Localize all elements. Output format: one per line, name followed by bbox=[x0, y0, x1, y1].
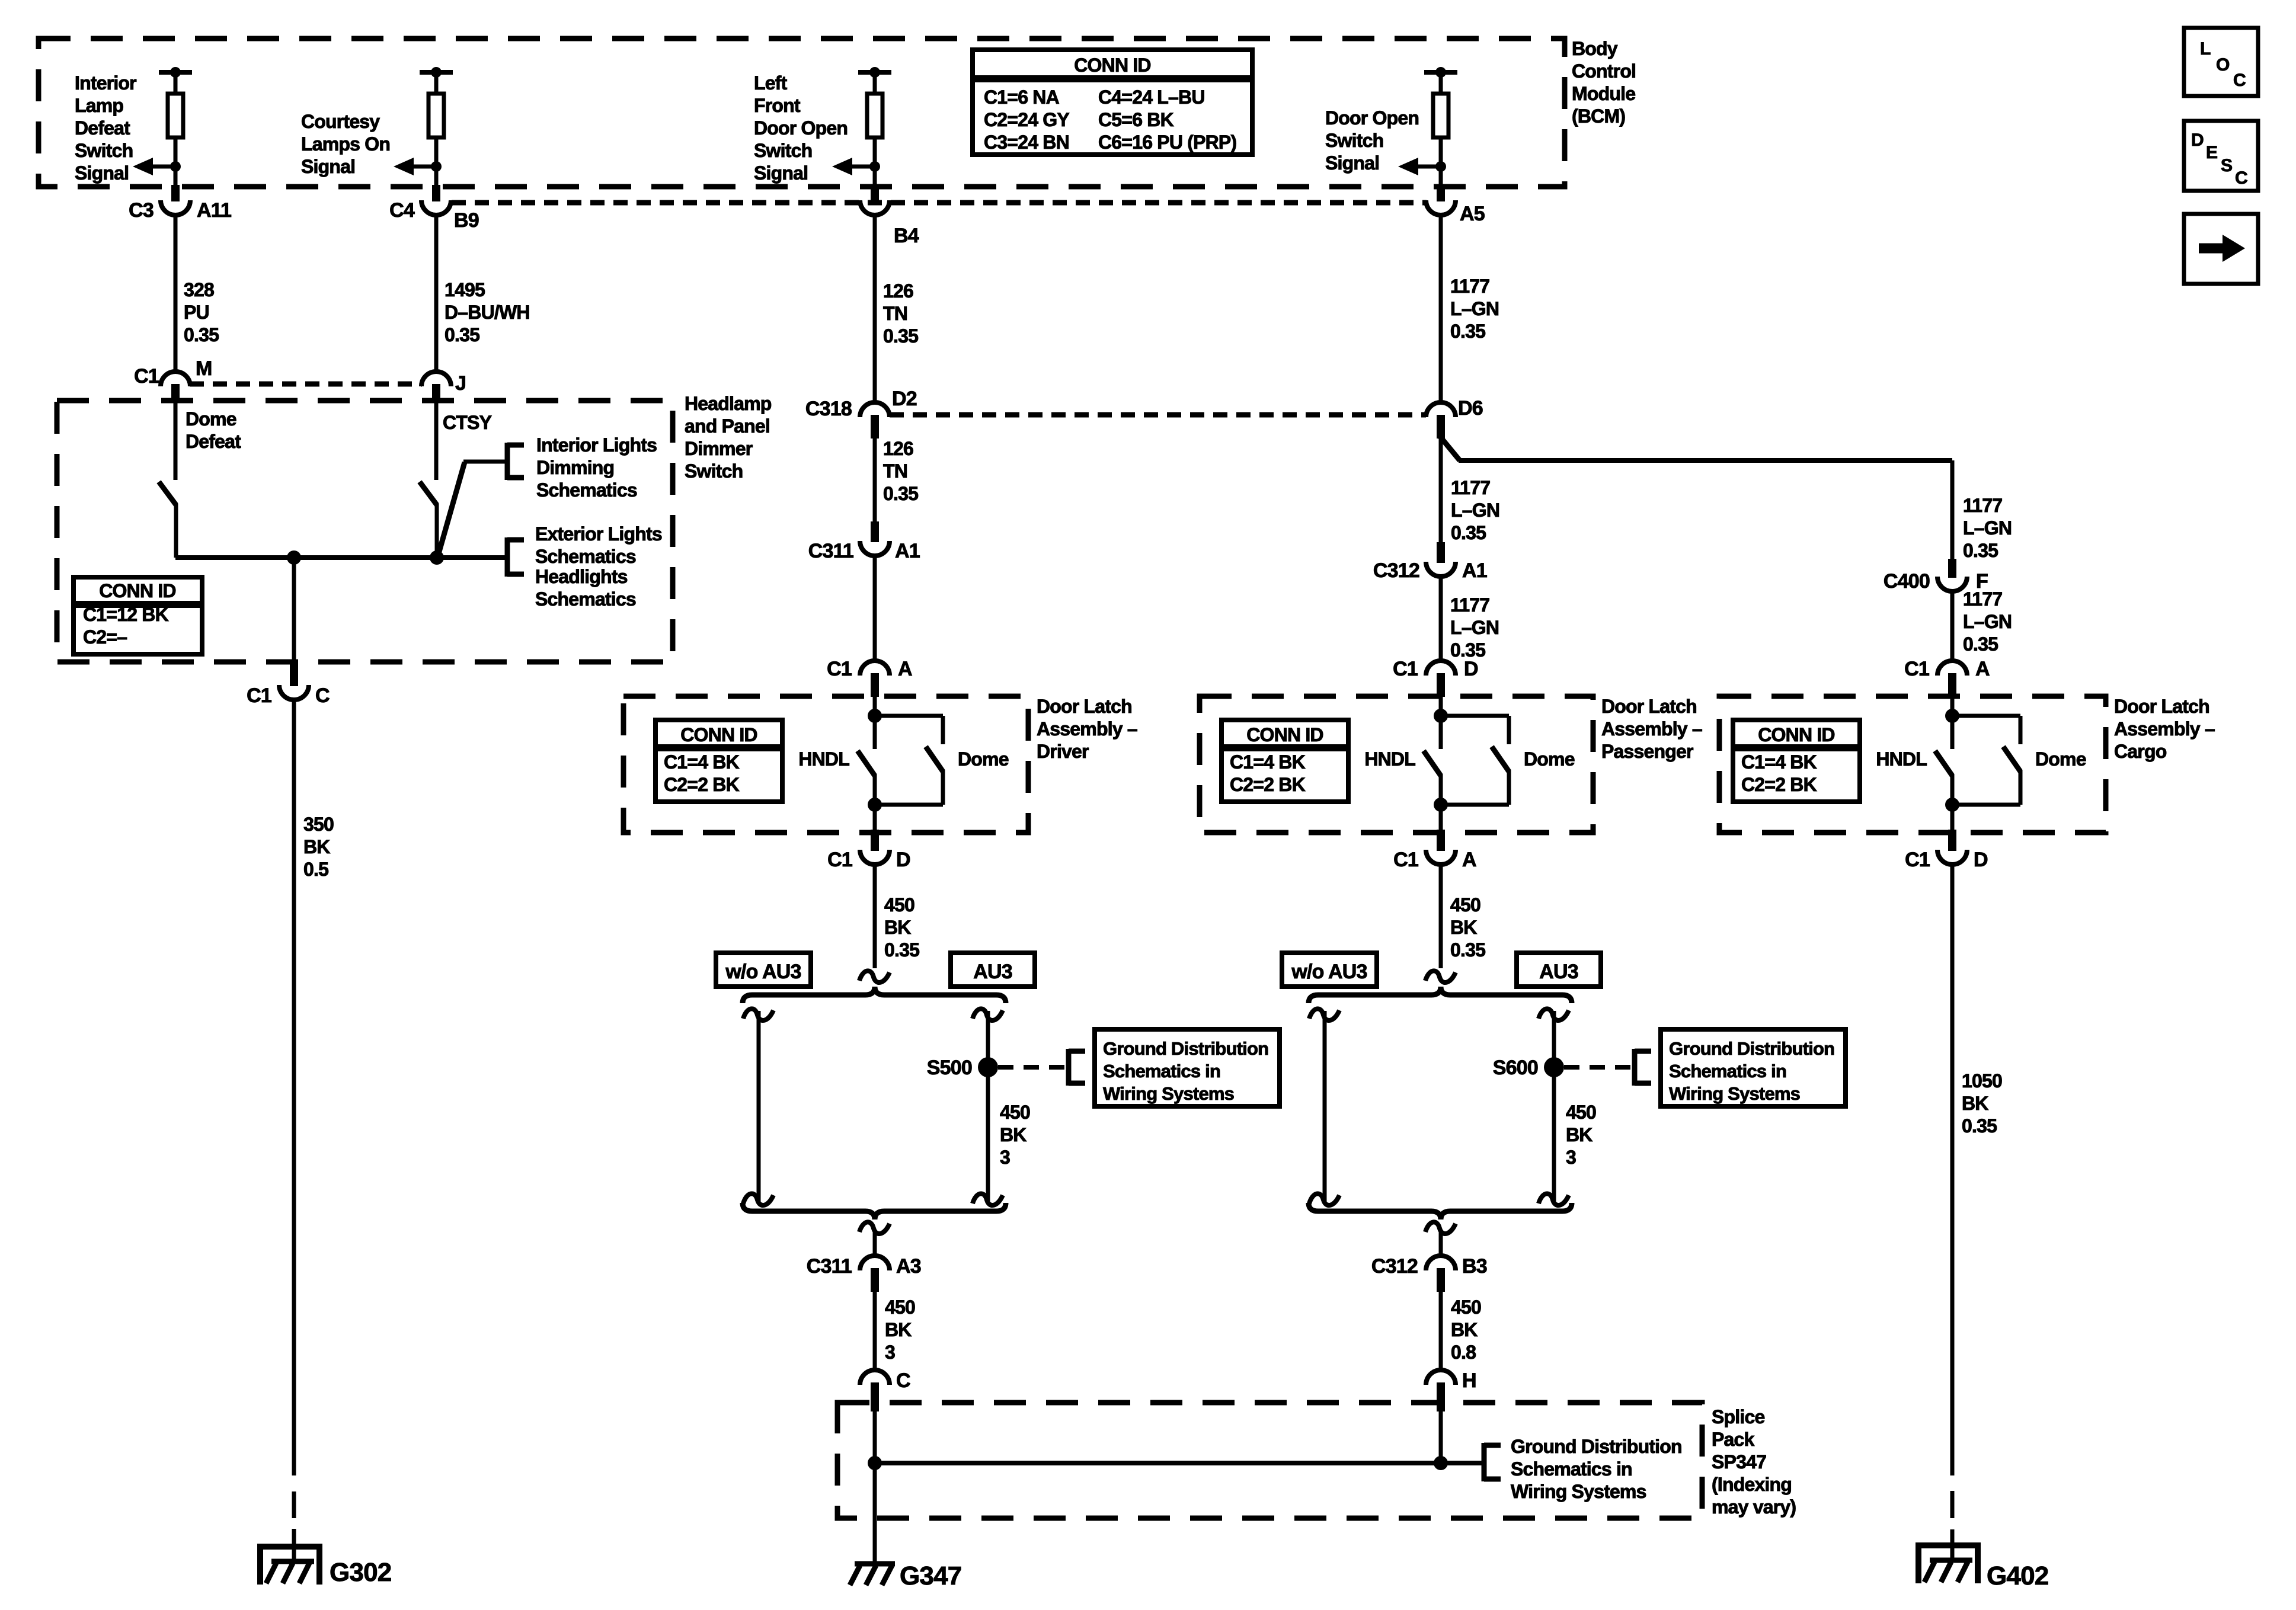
svg-text:0.35: 0.35 bbox=[1451, 522, 1486, 543]
connector C1 pin D passenger latch bbox=[1393, 658, 1478, 697]
svg-text:Switch: Switch bbox=[1325, 130, 1383, 151]
label Dome Defeat bbox=[186, 408, 241, 452]
switch dome defeat bbox=[159, 482, 176, 558]
svg-text:D6: D6 bbox=[1458, 397, 1483, 420]
svg-text:Door Latch: Door Latch bbox=[1037, 696, 1132, 717]
dashed reference line bbox=[998, 1065, 1068, 1070]
wire bbox=[434, 401, 439, 480]
svg-text:A5: A5 bbox=[1460, 203, 1485, 225]
ground G402 bbox=[1916, 1545, 1981, 1583]
Door Latch Assembly box (Cargo) bbox=[1719, 696, 2106, 833]
svg-text:BK: BK bbox=[1000, 1124, 1027, 1145]
wire bbox=[1950, 1529, 1955, 1562]
signal arrow door open switch bbox=[1398, 158, 1446, 175]
svg-text:C1: C1 bbox=[1393, 658, 1418, 680]
w/o AU3 option box bbox=[1282, 953, 1377, 987]
wire bbox=[1439, 1411, 1443, 1463]
svg-text:A11: A11 bbox=[197, 199, 231, 222]
switch Dome bbox=[2003, 716, 2020, 805]
junction dot bbox=[1434, 1456, 1448, 1470]
wire dash bbox=[1950, 1491, 1955, 1518]
svg-text:Lamp: Lamp bbox=[75, 95, 123, 116]
svg-text:B4: B4 bbox=[894, 225, 919, 247]
svg-text:TN: TN bbox=[883, 303, 907, 324]
svg-text:C: C bbox=[2233, 71, 2246, 90]
splice S600 bbox=[1493, 1057, 1564, 1079]
label Courtesy Lamps On Signal bbox=[301, 111, 390, 177]
svg-text:BK: BK bbox=[1962, 1093, 1988, 1114]
svg-text:BK: BK bbox=[884, 917, 911, 938]
bus wire bbox=[175, 555, 507, 560]
svg-text:3: 3 bbox=[885, 1342, 895, 1363]
wire w/o AU3 branch bbox=[1323, 1011, 1327, 1203]
wire 450 BK bbox=[873, 866, 877, 968]
svg-text:0.35: 0.35 bbox=[884, 939, 919, 961]
svg-text:Defeat: Defeat bbox=[186, 431, 241, 452]
svg-text:C6=16 PU (PRP): C6=16 PU (PRP) bbox=[1098, 132, 1236, 153]
wire break symbol bbox=[1539, 1193, 1569, 1205]
svg-text:w/o AU3: w/o AU3 bbox=[725, 961, 801, 983]
svg-text:Passenger: Passenger bbox=[1601, 741, 1693, 762]
svg-text:450: 450 bbox=[1566, 1102, 1596, 1123]
svg-text:Signal: Signal bbox=[75, 162, 129, 184]
svg-text:0.5: 0.5 bbox=[303, 859, 328, 880]
svg-text:0.8: 0.8 bbox=[1451, 1342, 1476, 1363]
label G302 bbox=[330, 1558, 391, 1587]
DESC legend box bbox=[2184, 121, 2258, 191]
label Exterior Lights Schematics bbox=[535, 523, 662, 567]
svg-text:C1=6 NA: C1=6 NA bbox=[984, 87, 1060, 108]
connector pin A5 bbox=[1426, 185, 1485, 225]
wire bbox=[873, 1411, 877, 1564]
option brace top bbox=[1309, 987, 1572, 1003]
svg-text:Left: Left bbox=[754, 72, 788, 94]
wire AU3 branch bbox=[986, 1011, 990, 1203]
signal arrow left front door open bbox=[832, 158, 880, 175]
label 1495 D-BU/WH 0.35 bbox=[445, 279, 530, 345]
svg-text:AU3: AU3 bbox=[973, 961, 1012, 983]
svg-text:D: D bbox=[896, 849, 910, 871]
svg-text:Schematics: Schematics bbox=[536, 479, 637, 501]
svg-text:L–GN: L–GN bbox=[1963, 611, 2012, 632]
junction dot bbox=[868, 1456, 882, 1470]
svg-text:Switch: Switch bbox=[685, 460, 743, 482]
svg-text:(Indexing: (Indexing bbox=[1712, 1474, 1792, 1495]
junction dot bbox=[287, 550, 301, 565]
svg-text:C318: C318 bbox=[805, 398, 852, 420]
svg-text:Headlamp: Headlamp bbox=[685, 393, 772, 414]
svg-text:A: A bbox=[1975, 658, 1990, 680]
svg-text:C312: C312 bbox=[1373, 559, 1419, 582]
connector C318 pin D2 bbox=[805, 388, 917, 438]
svg-text:Door Open: Door Open bbox=[1325, 107, 1419, 129]
switch Dome bbox=[926, 716, 943, 805]
dotted inline line row C bbox=[890, 412, 1426, 418]
connector C312 pin A1 bbox=[1373, 542, 1487, 582]
wire bbox=[873, 697, 877, 749]
switch HNDL bbox=[858, 751, 875, 805]
wire 1177 L-GN upper bbox=[1439, 217, 1443, 401]
wire bbox=[1439, 167, 1443, 187]
svg-text:C1: C1 bbox=[1905, 849, 1930, 871]
svg-text:Assembly –: Assembly – bbox=[1601, 718, 1702, 740]
bracket to ground distribution bbox=[1635, 1049, 1651, 1086]
svg-text:D2: D2 bbox=[892, 388, 917, 410]
resistor R3 left front door bbox=[858, 67, 891, 167]
signal arrow courtesy lamps on bbox=[394, 158, 442, 175]
ground G302 bbox=[257, 1547, 322, 1585]
connector pin J bbox=[421, 372, 466, 401]
label Headlamp and Panel Dimmer Switch bbox=[685, 393, 772, 482]
wire break symbol bbox=[1425, 1222, 1456, 1234]
svg-text:Courtesy: Courtesy bbox=[301, 111, 380, 132]
svg-text:Dome: Dome bbox=[186, 408, 236, 430]
connector C4 pin B9 bbox=[389, 185, 479, 232]
wire break symbol bbox=[1425, 971, 1456, 982]
dimmer switch CONN ID table bbox=[73, 577, 202, 654]
svg-text:Module: Module bbox=[1572, 83, 1635, 104]
switch CTSY bbox=[420, 482, 437, 558]
wire bbox=[873, 1233, 877, 1254]
svg-text:Pack: Pack bbox=[1712, 1429, 1755, 1450]
dotted inline harness line row A bbox=[452, 200, 1427, 206]
label 1177 L-GN 0.35 cargo upper bbox=[1963, 495, 2012, 561]
svg-text:Ground Distribution: Ground Distribution bbox=[1669, 1038, 1834, 1059]
svg-text:C2=2 BK: C2=2 BK bbox=[1741, 774, 1817, 795]
svg-text:1050: 1050 bbox=[1962, 1070, 2002, 1092]
label Splice Pack SP347 bbox=[1712, 1406, 1796, 1518]
svg-text:CONN ID: CONN ID bbox=[680, 724, 757, 745]
svg-text:C311: C311 bbox=[808, 540, 853, 562]
label Dome bbox=[2035, 748, 2086, 770]
svg-text:E: E bbox=[2206, 143, 2217, 162]
svg-text:Dome: Dome bbox=[2035, 748, 2086, 770]
wire break symbol bbox=[1309, 1009, 1339, 1020]
svg-text:Door Latch: Door Latch bbox=[2114, 696, 2209, 717]
svg-text:Interior Lights: Interior Lights bbox=[536, 434, 657, 456]
svg-text:L: L bbox=[2200, 39, 2211, 59]
wire break symbol bbox=[973, 1009, 1003, 1020]
svg-text:1177: 1177 bbox=[1963, 588, 2002, 610]
svg-text:Signal: Signal bbox=[1325, 152, 1379, 174]
svg-text:C4=24 L–BU: C4=24 L–BU bbox=[1098, 87, 1205, 108]
svg-text:CONN ID: CONN ID bbox=[1246, 724, 1323, 745]
svg-text:and Panel: and Panel bbox=[685, 415, 770, 437]
wire break symbol bbox=[743, 1193, 773, 1205]
svg-text:Control: Control bbox=[1572, 60, 1636, 82]
svg-text:Headlights: Headlights bbox=[535, 566, 628, 587]
label Interior Lights Dimming Schematics bbox=[536, 434, 657, 501]
svg-text:BK: BK bbox=[1450, 917, 1477, 938]
junction dot bbox=[1434, 798, 1448, 812]
svg-text:A: A bbox=[1462, 849, 1476, 871]
svg-text:SP347: SP347 bbox=[1712, 1451, 1766, 1473]
wire 450 BK lower bbox=[873, 1292, 877, 1368]
svg-text:M: M bbox=[196, 357, 212, 380]
wire w/o AU3 branch bbox=[757, 1011, 761, 1203]
Ground Distribution reference box bbox=[1661, 1029, 1846, 1106]
svg-text:328: 328 bbox=[184, 279, 214, 300]
BCM CONN ID table bbox=[973, 50, 1252, 155]
svg-text:A3: A3 bbox=[896, 1255, 921, 1278]
label 1177 L-GN 0.35 cargo lower bbox=[1963, 588, 2012, 655]
Door Latch Assembly box (Driver) bbox=[623, 696, 1028, 833]
label 450 BK 0.35 bbox=[1450, 894, 1485, 961]
label G402 bbox=[1987, 1561, 2048, 1590]
svg-text:BK: BK bbox=[885, 1319, 912, 1340]
svg-text:O: O bbox=[2216, 55, 2230, 75]
wire break symbol bbox=[1309, 1193, 1339, 1205]
connector pin B4 bbox=[860, 185, 919, 247]
svg-text:Defeat: Defeat bbox=[75, 117, 130, 139]
Body Control Module (BCM) dashed box bbox=[39, 39, 1565, 187]
svg-text:Schematics in: Schematics in bbox=[1669, 1061, 1786, 1081]
wire bbox=[1439, 1233, 1443, 1254]
label CTSY bbox=[443, 412, 492, 433]
junction dot bbox=[1945, 798, 1959, 812]
wire 1495 D-BU/WH bbox=[434, 217, 439, 370]
label 328 PU 0.35 bbox=[184, 279, 219, 345]
junction dot bbox=[1945, 709, 1959, 723]
svg-text:HNDL: HNDL bbox=[798, 748, 849, 770]
connector C400 pin F bbox=[1884, 559, 1988, 593]
svg-text:C400: C400 bbox=[1884, 570, 1930, 593]
svg-text:CONN ID: CONN ID bbox=[1074, 55, 1151, 76]
svg-text:Front: Front bbox=[754, 95, 801, 116]
label Ground Distribution Schematics in Wiring Systems bbox=[1511, 1436, 1682, 1502]
svg-text:Exterior Lights: Exterior Lights bbox=[535, 523, 662, 545]
svg-text:CONN ID: CONN ID bbox=[99, 580, 176, 601]
connector pin H bbox=[1426, 1369, 1476, 1411]
wire bbox=[1950, 593, 1955, 659]
svg-text:126: 126 bbox=[883, 438, 913, 459]
svg-text:Interior: Interior bbox=[75, 72, 136, 94]
svg-text:L–GN: L–GN bbox=[1451, 500, 1499, 521]
svg-text:CONN ID: CONN ID bbox=[1758, 724, 1835, 745]
svg-text:1177: 1177 bbox=[1451, 477, 1490, 498]
connector C311 pin A3 bbox=[807, 1255, 921, 1292]
svg-text:H: H bbox=[1462, 1369, 1476, 1392]
svg-text:C2=24 GY: C2=24 GY bbox=[984, 109, 1069, 130]
wire bbox=[1441, 803, 1509, 807]
bracket to exterior lights / headlights schematics bbox=[507, 537, 524, 577]
svg-text:3: 3 bbox=[1000, 1147, 1010, 1168]
label Headlights Schematics bbox=[535, 566, 636, 610]
dashed reference line bbox=[1564, 1065, 1634, 1070]
branch diagonal to cargo bbox=[1440, 437, 1460, 460]
label 450 BK 0.35 bbox=[884, 894, 919, 961]
label 126 TN 0.35 upper bbox=[883, 280, 918, 347]
latch CONN ID table bbox=[1221, 720, 1348, 802]
wire bbox=[1439, 697, 1443, 749]
label Dome bbox=[1524, 748, 1575, 770]
label Dome bbox=[958, 748, 1009, 770]
svg-text:450: 450 bbox=[885, 1297, 915, 1318]
svg-text:A: A bbox=[898, 658, 912, 680]
label 450 BK 3 bbox=[885, 1297, 915, 1363]
wire to dome switch bbox=[1952, 714, 2020, 718]
connector C1 pin D bbox=[1905, 830, 1988, 871]
svg-text:0.35: 0.35 bbox=[1962, 1115, 1997, 1137]
junction dot bbox=[868, 709, 882, 723]
svg-text:C312: C312 bbox=[1371, 1255, 1418, 1278]
svg-text:B3: B3 bbox=[1462, 1255, 1487, 1278]
svg-text:C3: C3 bbox=[129, 199, 154, 222]
wire bbox=[174, 167, 178, 187]
wire bbox=[873, 805, 877, 830]
svg-text:C: C bbox=[896, 1369, 910, 1392]
connector C1 pin A driver latch bbox=[827, 658, 912, 697]
svg-text:L–GN: L–GN bbox=[1450, 298, 1499, 319]
svg-text:Dome: Dome bbox=[1524, 748, 1575, 770]
svg-text:G347: G347 bbox=[900, 1561, 961, 1590]
svg-text:Door Open: Door Open bbox=[754, 117, 848, 139]
Headlamp and Panel Dimmer Switch dashed box bbox=[57, 401, 673, 662]
connector C1 pin M bbox=[134, 357, 212, 401]
svg-text:Switch: Switch bbox=[75, 140, 133, 161]
signal arrow interior lamp defeat bbox=[133, 158, 181, 175]
svg-text:C: C bbox=[2235, 168, 2247, 188]
svg-text:1495: 1495 bbox=[445, 279, 485, 300]
svg-text:1177: 1177 bbox=[1963, 495, 2002, 516]
label 450 BK 0.8 bbox=[1451, 1297, 1481, 1363]
svg-text:C5=6 BK: C5=6 BK bbox=[1098, 109, 1174, 130]
svg-text:3: 3 bbox=[1566, 1147, 1576, 1168]
bracket to interior lights schematics bbox=[507, 443, 524, 480]
svg-text:C4: C4 bbox=[389, 199, 415, 222]
connector C1 pin A cargo latch bbox=[1904, 658, 1990, 697]
option brace top bbox=[743, 987, 1006, 1003]
wire bbox=[875, 803, 943, 807]
svg-text:S500: S500 bbox=[927, 1057, 972, 1079]
wire 328 PU bbox=[174, 217, 178, 370]
connector C1 pin C bbox=[247, 662, 330, 707]
wire break symbol bbox=[859, 971, 890, 982]
svg-text:C1: C1 bbox=[827, 658, 852, 680]
svg-text:Wiring Systems: Wiring Systems bbox=[1511, 1481, 1646, 1502]
svg-text:D: D bbox=[1974, 849, 1988, 871]
svg-text:126: 126 bbox=[883, 280, 913, 302]
svg-text:450: 450 bbox=[1000, 1102, 1030, 1123]
wire 450 BK lower bbox=[1439, 1292, 1443, 1368]
option brace bottom bbox=[1309, 1203, 1572, 1219]
svg-text:Switch: Switch bbox=[754, 140, 812, 161]
svg-text:L–GN: L–GN bbox=[1450, 617, 1499, 638]
wire break symbol bbox=[973, 1193, 1003, 1205]
junction dot bbox=[868, 798, 882, 812]
svg-text:0.35: 0.35 bbox=[1963, 540, 1998, 561]
option brace bottom bbox=[743, 1203, 1006, 1219]
svg-text:BK: BK bbox=[1566, 1124, 1593, 1145]
svg-text:TN: TN bbox=[883, 460, 907, 482]
wire AU3 branch bbox=[1552, 1011, 1556, 1203]
svg-text:J: J bbox=[455, 372, 466, 395]
connector C311 pin A1 bbox=[808, 521, 920, 562]
svg-text:C1=4 BK: C1=4 BK bbox=[1230, 751, 1306, 773]
connector C3 pin A11 bbox=[129, 185, 231, 222]
connector pin C bbox=[860, 1369, 910, 1411]
svg-text:HNDL: HNDL bbox=[1364, 748, 1415, 770]
wire bbox=[873, 167, 877, 187]
svg-text:Signal: Signal bbox=[301, 156, 355, 177]
label HNDL bbox=[1364, 748, 1415, 770]
svg-text:C1: C1 bbox=[827, 849, 852, 871]
svg-text:0.35: 0.35 bbox=[184, 324, 219, 345]
bracket to ground distribution bbox=[1069, 1049, 1085, 1086]
switch HNDL bbox=[1935, 751, 1952, 805]
junction dot bbox=[430, 550, 444, 565]
wire bbox=[1439, 805, 1443, 830]
resistor R2 courtesy lamps bbox=[420, 67, 453, 167]
svg-text:S: S bbox=[2221, 156, 2232, 175]
svg-text:Assembly –: Assembly – bbox=[2114, 718, 2215, 740]
svg-text:C1: C1 bbox=[134, 365, 159, 388]
svg-text:Body: Body bbox=[1572, 38, 1618, 59]
LOC legend box bbox=[2184, 28, 2258, 96]
bracket to ground distribution bbox=[1484, 1443, 1501, 1481]
svg-text:C1=4 BK: C1=4 BK bbox=[1741, 751, 1817, 773]
svg-text:C1: C1 bbox=[1393, 849, 1418, 871]
label Door Latch Assembly Driver bbox=[1037, 696, 1137, 762]
wire 450 BK bbox=[1439, 866, 1443, 968]
wire bbox=[1950, 805, 1955, 830]
label HNDL bbox=[1876, 748, 1927, 770]
switch HNDL bbox=[1424, 751, 1441, 805]
svg-text:C2=2 BK: C2=2 BK bbox=[1230, 774, 1306, 795]
svg-text:S600: S600 bbox=[1493, 1057, 1538, 1079]
svg-text:C2=2 BK: C2=2 BK bbox=[664, 774, 740, 795]
latch CONN ID table bbox=[1733, 720, 1860, 802]
wire to dome switch bbox=[1441, 714, 1509, 718]
label 450 BK 3 branch bbox=[1000, 1102, 1030, 1168]
svg-text:BK: BK bbox=[1451, 1319, 1478, 1340]
svg-text:B9: B9 bbox=[454, 209, 479, 232]
splice S500 bbox=[927, 1057, 998, 1079]
svg-text:may vary): may vary) bbox=[1712, 1496, 1796, 1518]
Ground Distribution reference box bbox=[1095, 1029, 1280, 1106]
svg-text:C1: C1 bbox=[247, 684, 271, 707]
label Body Control Module (BCM) bbox=[1572, 38, 1636, 127]
Door Latch Assembly box (Passenger) bbox=[1200, 696, 1593, 833]
label G347 bbox=[900, 1561, 961, 1590]
wire break symbol bbox=[1539, 1009, 1569, 1020]
svg-text:Ground Distribution: Ground Distribution bbox=[1511, 1436, 1682, 1457]
splice bus wire bbox=[875, 1461, 1482, 1465]
svg-text:0.35: 0.35 bbox=[445, 324, 479, 345]
label 1050 BK 0.35 bbox=[1962, 1070, 2002, 1137]
svg-text:Door Latch: Door Latch bbox=[1601, 696, 1697, 717]
svg-text:Driver: Driver bbox=[1037, 741, 1089, 762]
label HNDL bbox=[798, 748, 849, 770]
ground G347 bbox=[850, 1564, 895, 1585]
svg-text:Assembly –: Assembly – bbox=[1037, 718, 1137, 740]
svg-text:BK: BK bbox=[303, 836, 330, 857]
svg-text:C2=–: C2=– bbox=[83, 626, 127, 648]
svg-text:A1: A1 bbox=[895, 540, 920, 562]
Splice Pack SP347 dashed box bbox=[837, 1403, 1702, 1518]
latch CONN ID table bbox=[655, 720, 782, 802]
label Door Latch Assembly Passenger bbox=[1601, 696, 1702, 762]
wiper diagonal to interior lights bbox=[438, 462, 507, 556]
wire break symbol bbox=[743, 1009, 773, 1020]
label 126 TN 0.35 middle bbox=[883, 438, 918, 504]
AU3 option box bbox=[1517, 953, 1601, 987]
wire bbox=[292, 558, 296, 662]
junction dot bbox=[1434, 709, 1448, 723]
label 350 BK 0.5 bbox=[303, 814, 334, 880]
wire bbox=[1950, 697, 1955, 749]
label Door Latch Assembly Cargo bbox=[2114, 696, 2215, 762]
